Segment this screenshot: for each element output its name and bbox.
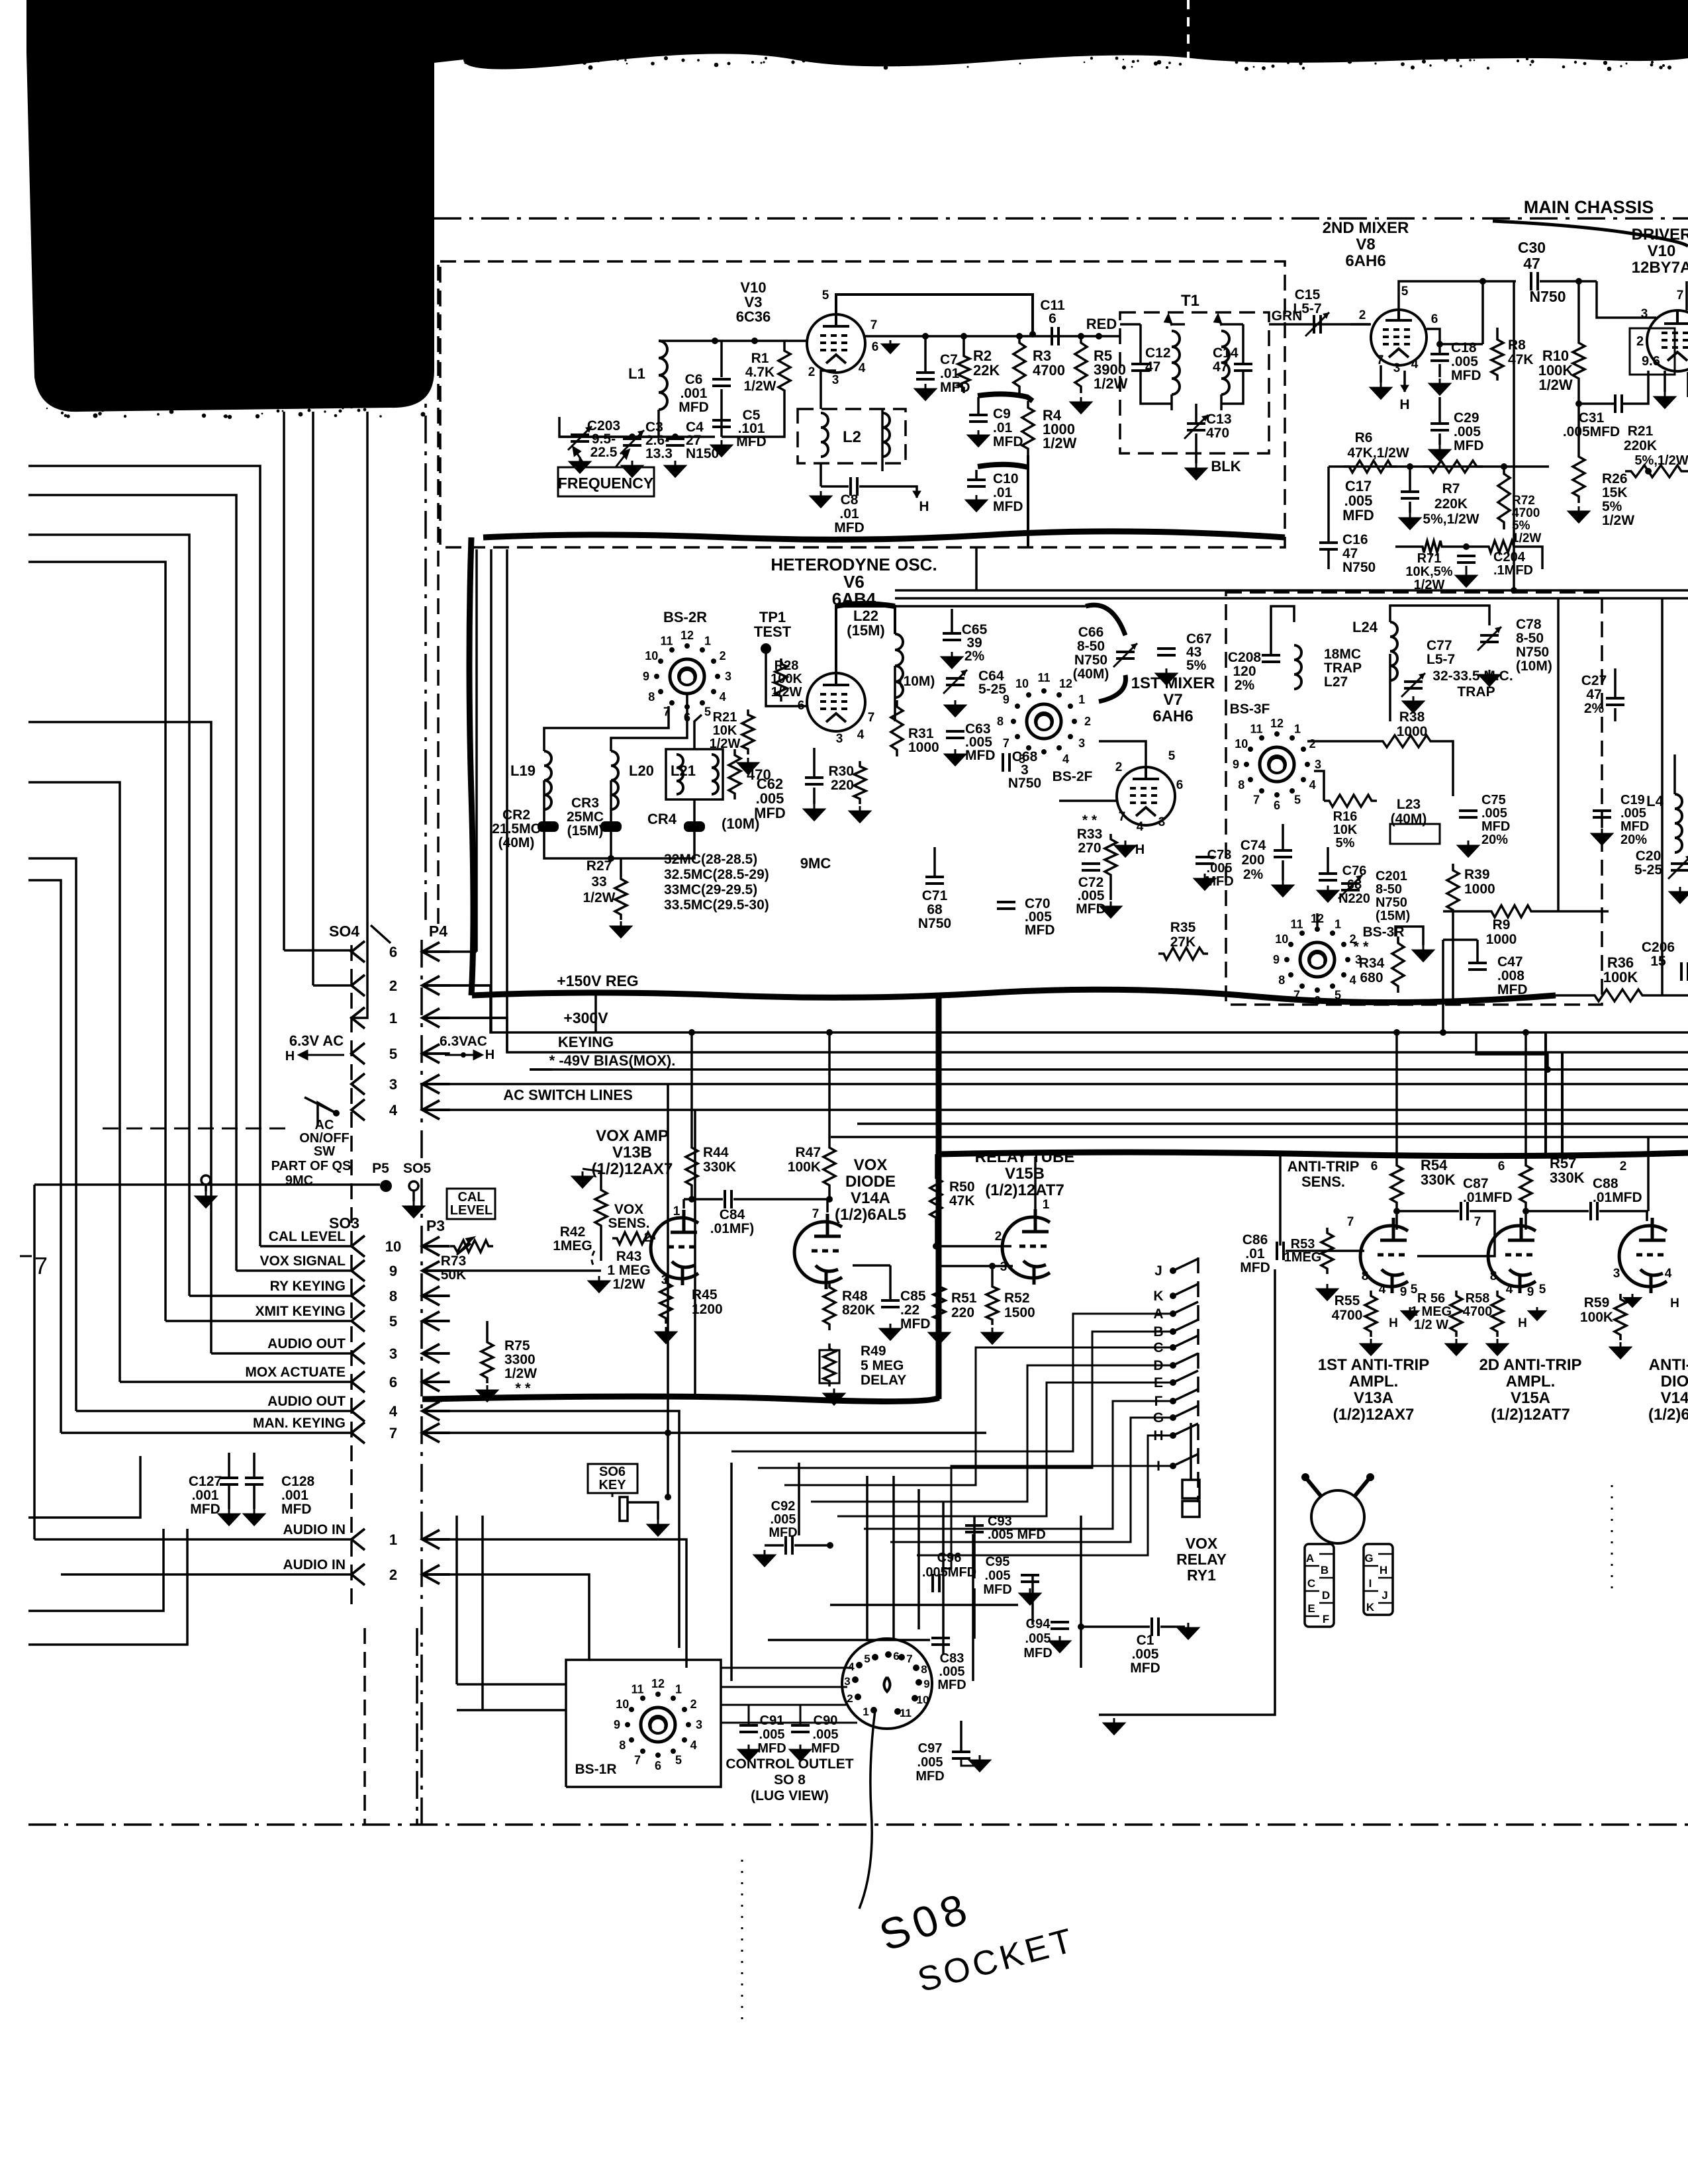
arrow 6.3VAC left	[299, 1051, 344, 1059]
inductor L19	[544, 751, 551, 809]
relay ladder stair wire 4	[837, 1383, 1173, 1516]
svg-text:R31: R31	[908, 726, 934, 741]
ground below C20	[1670, 887, 1688, 903]
svg-text:B: B	[1321, 1564, 1329, 1576]
svg-text:CR3: CR3	[571, 796, 599, 811]
SO4 corner	[371, 925, 391, 943]
svg-text:5: 5	[822, 289, 829, 302]
svg-text:7: 7	[34, 1252, 48, 1279]
resistor R36	[1589, 989, 1648, 1001]
wire TP1 to V6 grid	[766, 649, 807, 706]
coil L23 box	[1390, 824, 1440, 844]
svg-text:1000: 1000	[1397, 724, 1428, 739]
svg-text:R55: R55	[1335, 1293, 1360, 1308]
svg-text:R73: R73	[441, 1253, 467, 1269]
svg-text:MFD: MFD	[900, 1316, 931, 1332]
svg-text:12BY7A: 12BY7A	[1632, 259, 1688, 277]
svg-text:12: 12	[680, 629, 694, 642]
svg-text:.01: .01	[839, 506, 859, 522]
wire R57 to V15A pin6	[1524, 1208, 1527, 1230]
svg-text:6.3VAC: 6.3VAC	[440, 1034, 487, 1049]
variable capacitor C78	[1480, 634, 1499, 637]
ground below R58	[1487, 1339, 1507, 1355]
svg-text:L5-7: L5-7	[1427, 652, 1455, 667]
svg-text:4: 4	[720, 690, 726, 704]
svg-text:5: 5	[864, 1653, 870, 1665]
wire into BS-1R box a	[457, 1683, 566, 1686]
vertical wire C30 node down	[1513, 281, 1515, 590]
svg-text:5: 5	[1401, 285, 1409, 298]
svg-text:MFD: MFD	[965, 748, 996, 763]
wire C74 bottom	[1282, 860, 1284, 880]
svg-text:N750: N750	[1074, 653, 1107, 668]
svg-text:47: 47	[1145, 359, 1160, 375]
svg-text:L23: L23	[1397, 797, 1421, 812]
svg-text:3: 3	[832, 373, 839, 387]
tube V15B relay tube (half-section)	[1002, 1209, 1050, 1285]
SO3 pin 7 socket contact	[352, 1422, 365, 1443]
svg-text:330K: 330K	[703, 1160, 736, 1175]
svg-text:MFD: MFD	[1497, 982, 1528, 997]
svg-text:2: 2	[1636, 334, 1644, 349]
wire C76 top	[1327, 847, 1329, 874]
svg-text:R44: R44	[703, 1145, 729, 1160]
svg-text:7: 7	[634, 1754, 641, 1767]
wire: C7 top	[924, 336, 927, 373]
svg-text:MAIN CHASSIS: MAIN CHASSIS	[1524, 197, 1654, 217]
svg-text:1200: 1200	[692, 1302, 723, 1317]
svg-text:.01MF): .01MF)	[710, 1221, 755, 1236]
vox relay coil RY1	[1182, 1480, 1199, 1498]
svg-text:8-50: 8-50	[1077, 639, 1105, 654]
svg-text:3: 3	[389, 1345, 397, 1362]
svg-text:V14A: V14A	[851, 1189, 890, 1207]
capacitor C87	[1460, 1202, 1462, 1220]
wire: bottom row of trimmer caps	[559, 435, 715, 438]
ground below C65	[942, 652, 962, 668]
svg-text:1/2W: 1/2W	[1043, 435, 1077, 451]
svg-text:R48: R48	[842, 1289, 868, 1304]
svg-text:H: H	[485, 1048, 494, 1062]
svg-text:(1/2)12AX7: (1/2)12AX7	[592, 1160, 673, 1178]
SO3 pin 3 socket contact	[352, 1343, 365, 1364]
svg-text:3300: 3300	[504, 1352, 536, 1367]
ground below C204	[1456, 570, 1476, 586]
ground below C17	[1400, 513, 1420, 529]
svg-text:220K: 220K	[1624, 438, 1657, 453]
handwriting S08	[873, 1882, 978, 1960]
inductor L1	[659, 341, 667, 410]
svg-text:10K: 10K	[1333, 823, 1358, 837]
rotary switch BS-2F	[1027, 704, 1061, 739]
tube V10 driver 12BY7 (cut at page edge)	[1647, 310, 1688, 371]
svg-text:8: 8	[1490, 1269, 1497, 1283]
resistor R38	[1377, 735, 1436, 747]
svg-text:R72: R72	[1512, 494, 1535, 508]
wire C8 to H	[859, 486, 917, 498]
capacitor C7	[916, 371, 935, 374]
wire driver plate up	[1685, 281, 1688, 310]
vertical to top bus	[1442, 940, 1444, 1032]
tube V6 6AB4	[807, 673, 865, 731]
wire harness to SO3 pin at y=2165	[61, 1432, 352, 1434]
wire from BS-3F to R38	[1307, 740, 1377, 743]
P3 pin 6 plug contact	[422, 1373, 440, 1392]
enclosure box BS-1R	[566, 1660, 721, 1787]
svg-text:R21: R21	[713, 710, 737, 725]
svg-text:H: H	[1389, 1316, 1398, 1330]
svg-text:.01MFD: .01MFD	[1463, 1190, 1513, 1205]
harness wire from left edge y=1182	[28, 782, 120, 1382]
svg-text:5: 5	[1168, 749, 1176, 763]
svg-text:.005MFD: .005MFD	[922, 1565, 976, 1580]
svg-text:4700: 4700	[1332, 1308, 1363, 1323]
wire BS-1R to SO8 2	[721, 1704, 846, 1706]
wire L20 to CR3	[610, 780, 612, 821]
wire L21 top to BS-2R	[694, 715, 702, 749]
svg-text:470: 470	[1206, 426, 1229, 441]
svg-text:C74: C74	[1241, 838, 1266, 853]
dotted vertical right of terminal strips	[1611, 1485, 1613, 1593]
capacitor C93	[965, 1524, 984, 1527]
svg-text:1/2W: 1/2W	[1538, 377, 1573, 393]
resistor R48	[823, 1281, 835, 1330]
capacitor C85	[881, 1299, 900, 1302]
wire to C8	[821, 485, 849, 488]
wire V8 pin6 out	[1427, 329, 1483, 344]
ground below R55	[1361, 1339, 1381, 1355]
pot arrow R73	[457, 1238, 473, 1255]
wire R50 to V15B grid	[936, 1224, 1011, 1246]
wire R72b right	[1517, 547, 1542, 569]
wire top row to BS-2F area	[895, 605, 1086, 608]
svg-text:(10M): (10M)	[722, 815, 759, 832]
svg-text:5 MEG: 5 MEG	[861, 1358, 904, 1373]
svg-text:C9: C9	[993, 406, 1011, 422]
svg-text:1MEG: 1MEG	[553, 1238, 592, 1253]
svg-text:1: 1	[389, 1531, 397, 1548]
P4 pin 1 plug contact	[422, 1009, 440, 1028]
svg-text:L24: L24	[1352, 619, 1378, 635]
rotary switch BS-2R	[670, 659, 704, 694]
SO4 pin 4 socket contact	[352, 1099, 365, 1120]
svg-text:.001: .001	[281, 1488, 308, 1503]
ground below R42	[589, 1276, 609, 1292]
svg-text:1: 1	[1335, 917, 1341, 931]
wire V15B cathode row	[936, 1265, 1013, 1267]
svg-text:20%: 20%	[1481, 833, 1508, 847]
svg-text:MFD: MFD	[1240, 1260, 1270, 1275]
svg-text:3: 3	[1078, 737, 1085, 750]
svg-text:C90: C90	[814, 1713, 838, 1728]
svg-text:2: 2	[1115, 760, 1123, 774]
svg-text:13.3: 13.3	[645, 446, 673, 461]
svg-text:H: H	[1670, 1297, 1679, 1310]
SO8 area vertical wire x=1310	[866, 1476, 868, 1641]
P5 plug dot	[380, 1180, 392, 1192]
svg-text:9: 9	[614, 1718, 620, 1731]
svg-text:C92: C92	[771, 1499, 796, 1514]
svg-text:2: 2	[690, 1698, 697, 1711]
relay ladder stair wire 0	[731, 1314, 1173, 1451]
svg-text:SO5: SO5	[403, 1161, 431, 1176]
svg-text:7: 7	[812, 1207, 820, 1221]
svg-text:1: 1	[863, 1706, 868, 1718]
inductor L22	[895, 634, 903, 698]
curved wire from SO8 pin 1 down	[859, 1710, 875, 1909]
svg-text:N750: N750	[1516, 645, 1549, 660]
wire BS-1R to SO8 0	[721, 1667, 852, 1669]
svg-text:15K: 15K	[1602, 485, 1628, 500]
wire BS-1R to SO8 3	[721, 1722, 857, 1724]
svg-text:C95: C95	[986, 1555, 1010, 1569]
svg-text:C208: C208	[1228, 650, 1262, 665]
svg-text:4700: 4700	[1512, 506, 1540, 520]
tube V14A VOX diode (half-section)	[794, 1214, 842, 1289]
harness corner bottom-left 1	[28, 1456, 140, 1518]
svg-text:BLK: BLK	[1211, 458, 1241, 475]
wire C65 top	[951, 609, 953, 633]
wire V13B plate to C84	[684, 1198, 723, 1201]
svg-text:1/2W: 1/2W	[1512, 531, 1541, 545]
capacitor C204	[1457, 555, 1476, 557]
chassis boundary left vertical (lower, P-side)	[420, 940, 423, 1825]
wire into BS-1R box b	[457, 1709, 566, 1711]
svg-text:20%: 20%	[1620, 833, 1647, 847]
bus -49V BIAS	[530, 1068, 1688, 1071]
svg-text:R27: R27	[586, 858, 612, 874]
wire C14 bottom	[1221, 371, 1243, 404]
svg-text:DRIVER: DRIVER	[1632, 226, 1688, 244]
P4 pin 4 plug contact	[422, 1101, 440, 1120]
svg-text:4: 4	[859, 361, 866, 375]
heater arrow V8	[1401, 385, 1409, 392]
svg-text:8: 8	[1362, 1269, 1369, 1283]
wire V8 heater	[1403, 371, 1406, 392]
svg-text:.005: .005	[813, 1727, 839, 1742]
svg-text:C: C	[1307, 1577, 1315, 1590]
capacitor C29	[1430, 422, 1449, 425]
tube V15A 2nd anti-trip (half-section)	[1488, 1218, 1536, 1293]
svg-text:3: 3	[1158, 815, 1166, 829]
svg-text:MFD: MFD	[1076, 901, 1106, 917]
wire C30 to driver grid node	[1540, 280, 1597, 283]
boxed label FREQUENCY	[558, 467, 654, 496]
svg-text:BS-2F: BS-2F	[1053, 769, 1093, 784]
svg-text:H: H	[1518, 1316, 1527, 1330]
bus +300V	[427, 985, 1688, 1032]
SO4 pin 3 socket contact	[352, 1073, 365, 1095]
wire GRN to V8 grid	[1350, 323, 1370, 326]
variable capacitor C201	[1341, 882, 1360, 885]
svg-text:(40M): (40M)	[1073, 666, 1109, 682]
svg-text:8: 8	[389, 1288, 397, 1304]
svg-text:820K: 820K	[842, 1302, 875, 1318]
capacitor C62	[805, 776, 823, 779]
svg-text:J: J	[1382, 1589, 1387, 1602]
svg-text:DELAY: DELAY	[861, 1373, 906, 1388]
svg-text:+300V: +300V	[563, 1009, 608, 1026]
ground below R56	[1446, 1339, 1466, 1355]
svg-text:H: H	[1135, 842, 1145, 857]
wire R54 to V13A pin6	[1395, 1208, 1398, 1230]
SO3 pin 8 socket contact	[352, 1285, 365, 1306]
inductor L4	[1675, 794, 1682, 852]
harness wire from left edge y=1091	[28, 722, 211, 1353]
svg-text:6: 6	[1274, 799, 1280, 812]
svg-text:R1: R1	[751, 351, 769, 366]
svg-text:C12: C12	[1145, 345, 1171, 361]
dashed enclosure: bandswitch BS-3 section	[1226, 592, 1602, 1005]
capacitor C18	[1430, 353, 1449, 355]
svg-text:MFD: MFD	[1454, 438, 1484, 453]
thick jog wire R2-R4 node	[978, 394, 1033, 401]
wire T1 GRN out	[1269, 323, 1350, 326]
dashed actuator line of relay contacts	[1197, 1257, 1199, 1502]
capacitor C5	[712, 419, 731, 422]
heater arrow	[913, 491, 921, 498]
svg-text:R 56: R 56	[1417, 1291, 1445, 1306]
svg-text:C47: C47	[1497, 954, 1523, 970]
bus KEYING	[427, 1018, 1688, 1052]
svg-text:RED: RED	[1086, 316, 1117, 332]
wire: T1 center tap down to C13	[1195, 404, 1197, 424]
wire R51 top	[938, 1246, 941, 1281]
svg-text:3: 3	[1613, 1267, 1620, 1281]
svg-text:25MC: 25MC	[567, 809, 604, 825]
resistor R21	[1625, 465, 1688, 477]
chassis boundary left vertical (upper)	[424, 225, 427, 925]
ground below R51	[929, 1328, 949, 1343]
terminal strip left	[1305, 1544, 1334, 1627]
wire R52 top	[991, 1266, 994, 1281]
svg-text:1/2W: 1/2W	[612, 1277, 645, 1292]
resistor R72 body	[1485, 541, 1517, 553]
socket SO8 outline	[842, 1639, 932, 1729]
ground below C91	[739, 1745, 759, 1760]
resistor R2	[958, 351, 970, 393]
svg-text:R28: R28	[774, 659, 799, 673]
svg-text:100K: 100K	[1580, 1310, 1613, 1325]
P3 pin 4 plug contact	[422, 1402, 440, 1421]
svg-text:11: 11	[1290, 917, 1303, 931]
svg-text:AC SWITCH LINES: AC SWITCH LINES	[503, 1087, 633, 1103]
svg-text:L27: L27	[1324, 674, 1348, 690]
svg-text:50K: 50K	[441, 1267, 467, 1283]
SO8 area vertical wire x=1350	[892, 1476, 895, 1640]
ground below R30	[850, 806, 870, 822]
svg-text:7: 7	[1347, 1215, 1354, 1229]
svg-text:9MC: 9MC	[800, 855, 831, 872]
wire: junction to R2 top	[962, 336, 965, 351]
wire harness to SO3 pin at y=1883	[260, 1245, 352, 1248]
svg-text:J: J	[1154, 1263, 1162, 1279]
wire P4 pin6	[427, 950, 477, 953]
resistor R34	[1392, 936, 1404, 993]
svg-text:22.5: 22.5	[590, 445, 618, 460]
svg-text:L2: L2	[843, 428, 861, 446]
svg-text:330K: 330K	[1550, 1169, 1585, 1186]
resistor R27	[615, 874, 627, 920]
svg-text:3: 3	[844, 1675, 850, 1688]
bus line y=1698	[857, 1122, 1688, 1125]
bus AC switch line 1	[427, 1083, 1688, 1085]
ground below R53	[1317, 1284, 1337, 1300]
svg-text:VOX AMP: VOX AMP	[596, 1127, 669, 1145]
svg-text:VOX SIGNAL: VOX SIGNAL	[259, 1253, 346, 1269]
svg-text:V15A: V15A	[1511, 1389, 1550, 1407]
svg-text:C97: C97	[918, 1741, 943, 1756]
svg-text:H: H	[1399, 397, 1409, 412]
svg-text:KEY: KEY	[598, 1478, 626, 1492]
svg-text:(10M): (10M)	[899, 674, 935, 689]
long vertical center-left b	[694, 1110, 696, 1399]
svg-text:.005: .005	[1207, 861, 1233, 876]
wire harness to SO3 pin at y=1996	[165, 1320, 352, 1322]
svg-text:47K,1/2W: 47K,1/2W	[1347, 445, 1409, 461]
svg-text:MFD: MFD	[983, 1582, 1011, 1597]
ground below R59	[1611, 1342, 1630, 1358]
left edge vertical to AUDIO IN	[33, 1185, 36, 1539]
svg-text:R9: R9	[1493, 917, 1511, 933]
svg-text:C71: C71	[922, 888, 948, 903]
wire R44 to C84 node	[690, 1191, 693, 1199]
ground below C10	[966, 495, 986, 511]
svg-text:2: 2	[1359, 308, 1366, 322]
wire: L2 right lower lead	[881, 409, 884, 471]
harness wire from left edge y=849	[28, 562, 165, 1321]
ground below R5	[1071, 397, 1091, 413]
thick bus +150V REG	[472, 989, 1556, 1002]
svg-text:AUDIO OUT: AUDIO OUT	[267, 1336, 346, 1351]
wire from SO6 up	[667, 1433, 669, 1497]
svg-text:4: 4	[389, 1403, 398, 1420]
svg-text:6: 6	[1498, 1160, 1505, 1173]
TP1 test point dot	[761, 643, 771, 654]
resistor R54	[1391, 1160, 1403, 1208]
P4 pin 3 plug contact	[422, 1075, 440, 1094]
svg-text:R8: R8	[1508, 338, 1526, 353]
wire: C6 top lead	[720, 341, 723, 377]
wire BS-1R to SO8 1	[721, 1686, 847, 1688]
ground below C78	[1479, 670, 1499, 686]
long bus wire y=904 to page edge	[895, 597, 1688, 600]
ground below C85	[880, 1324, 900, 1340]
ground below C13	[1186, 463, 1206, 479]
svg-text:2: 2	[389, 1567, 397, 1583]
wire L24 top to C78	[1390, 606, 1489, 625]
svg-text:R38: R38	[1399, 709, 1425, 725]
trap coil L27	[1294, 645, 1301, 689]
harness corner bottom-left 2	[28, 1529, 164, 1611]
svg-text:MOX ACTUATE: MOX ACTUATE	[245, 1365, 346, 1380]
svg-text:MFD: MFD	[736, 434, 767, 449]
svg-text:6AH6: 6AH6	[1152, 707, 1193, 725]
svg-text:C88: C88	[1593, 1176, 1618, 1191]
capacitor C95	[1021, 1574, 1039, 1576]
svg-text:4: 4	[690, 1739, 697, 1752]
bias line start	[530, 1068, 552, 1071]
P3 pin 2 plug contact	[422, 1565, 440, 1584]
wire V14A to C85	[889, 1265, 892, 1300]
svg-text:1000: 1000	[1486, 932, 1517, 947]
tube V7 6AH6	[1117, 767, 1175, 825]
ground below feedthrough	[196, 1191, 216, 1207]
svg-text:SENS.: SENS.	[608, 1216, 649, 1231]
riser P4 pin2 up to box1	[490, 549, 492, 1032]
svg-text:E: E	[1307, 1602, 1315, 1615]
wire C88 to V14B	[1599, 1210, 1648, 1212]
